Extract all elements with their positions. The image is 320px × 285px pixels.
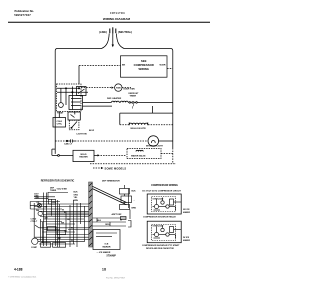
svg-text:COMPRESSOR SHOWN W/ RELAY: COMPRESSOR SHOWN W/ RELAY	[143, 216, 176, 219]
svg-text:DEF TERMINATOR: DEF TERMINATOR	[102, 179, 120, 182]
svg-text:SOME MODELS: SOME MODELS	[105, 166, 127, 170]
svg-text:OVERLOAD: OVERLOAD	[153, 197, 164, 200]
svg-text:CTRL: CTRL	[57, 124, 63, 126]
svg-text:BLK: BLK	[74, 192, 79, 194]
svg-text:BK W: BK W	[89, 130, 94, 132]
svg-text:5T0649P: 5T0649P	[107, 254, 117, 257]
svg-text:WIRING: WIRING	[138, 67, 148, 71]
svg-text:GRN: GRN	[52, 202, 57, 204]
svg-text:INTERIOR LIGHT: INTERIOR LIGHT	[146, 146, 163, 148]
svg-text:MAKER: MAKER	[183, 239, 191, 242]
svg-text:5995277307: 5995277307	[14, 13, 31, 17]
svg-text:Part No. 5995277307: Part No. 5995277307	[106, 276, 126, 279]
svg-text:Publication No.: Publication No.	[15, 9, 35, 13]
svg-text:DEFROST: DEFROST	[129, 93, 140, 95]
svg-text:FAN: FAN	[116, 87, 121, 90]
svg-text:BRN: BRN	[74, 200, 79, 202]
svg-text:(NEUTRAL): (NEUTRAL)	[118, 30, 132, 34]
svg-text:18: 18	[102, 267, 106, 271]
svg-text:BLK: BLK	[132, 191, 137, 193]
svg-text:ICE: ICE	[105, 244, 109, 246]
svg-text:BRN: BRN	[132, 208, 137, 210]
svg-text:COLD: COLD	[56, 121, 62, 123]
svg-text:LIGHT SW: LIGHT SW	[77, 134, 87, 136]
svg-text:HEATER: HEATER	[79, 156, 88, 159]
svg-text:WIRING DIAGRAM: WIRING DIAGRAM	[103, 17, 131, 21]
svg-text:W: W	[71, 240, 73, 242]
svg-text:ORG: ORG	[105, 224, 110, 226]
svg-text:DEF. HEATER: DEF. HEATER	[107, 97, 122, 100]
svg-text:TSTAT: TSTAT	[57, 111, 64, 114]
svg-text:MAKER: MAKER	[102, 246, 110, 249]
svg-text:MAKER: MAKER	[183, 211, 191, 214]
svg-text:115 VOLT 60 HZ COMPRESSOR CIRC: 115 VOLT 60 HZ COMPRESSOR CIRCUIT	[142, 191, 181, 193]
svg-text:WH: WH	[36, 198, 40, 200]
svg-text:CAB. LT: CAB. LT	[64, 143, 73, 146]
svg-text:BLK: BLK	[97, 220, 102, 222]
svg-text:ORG: ORG	[74, 194, 79, 196]
svg-text:© 1998 White Consolidated Ind.: © 1998 White Consolidated Ind.	[8, 275, 37, 278]
svg-text:COMP: COMP	[31, 247, 38, 249]
svg-text:W-BR: W-BR	[160, 64, 166, 66]
svg-text:COMPRESSOR SHOWN W/ PTC START: COMPRESSOR SHOWN W/ PTC START	[142, 244, 180, 247]
svg-text:W: W	[120, 220, 122, 222]
svg-text:WATER VALVE: WATER VALVE	[131, 154, 146, 157]
svg-text:COMPRESSOR WIRING: COMPRESSOR WIRING	[151, 184, 178, 187]
svg-text:DEVICE AND RUN CAPACITOR: DEVICE AND RUN CAPACITOR	[146, 247, 174, 250]
svg-text:REFRIGERATOR SCHEMATIC: REFRIGERATOR SCHEMATIC	[41, 179, 75, 182]
svg-text:EVAP. FAN: EVAP. FAN	[124, 87, 136, 90]
svg-text:4-188: 4-188	[14, 267, 23, 271]
svg-text:MULLION HTR: MULLION HTR	[131, 128, 146, 130]
svg-text:FRT21TRC: FRT21TRC	[110, 11, 126, 15]
svg-text:— ICE MAKER: — ICE MAKER	[97, 251, 111, 254]
svg-text:BK: BK	[122, 64, 126, 66]
svg-text:ADPT DEF: ADPT DEF	[112, 213, 123, 216]
svg-text:MOLD: MOLD	[80, 154, 87, 156]
svg-text:→: →	[133, 200, 135, 202]
svg-text:(LINE): (LINE)	[99, 30, 107, 34]
svg-text:OVERLOAD: OVERLOAD	[153, 225, 164, 228]
svg-text:TIMER: TIMER	[130, 96, 137, 98]
svg-text:Y-BL W BK: Y-BL W BK	[57, 189, 68, 191]
